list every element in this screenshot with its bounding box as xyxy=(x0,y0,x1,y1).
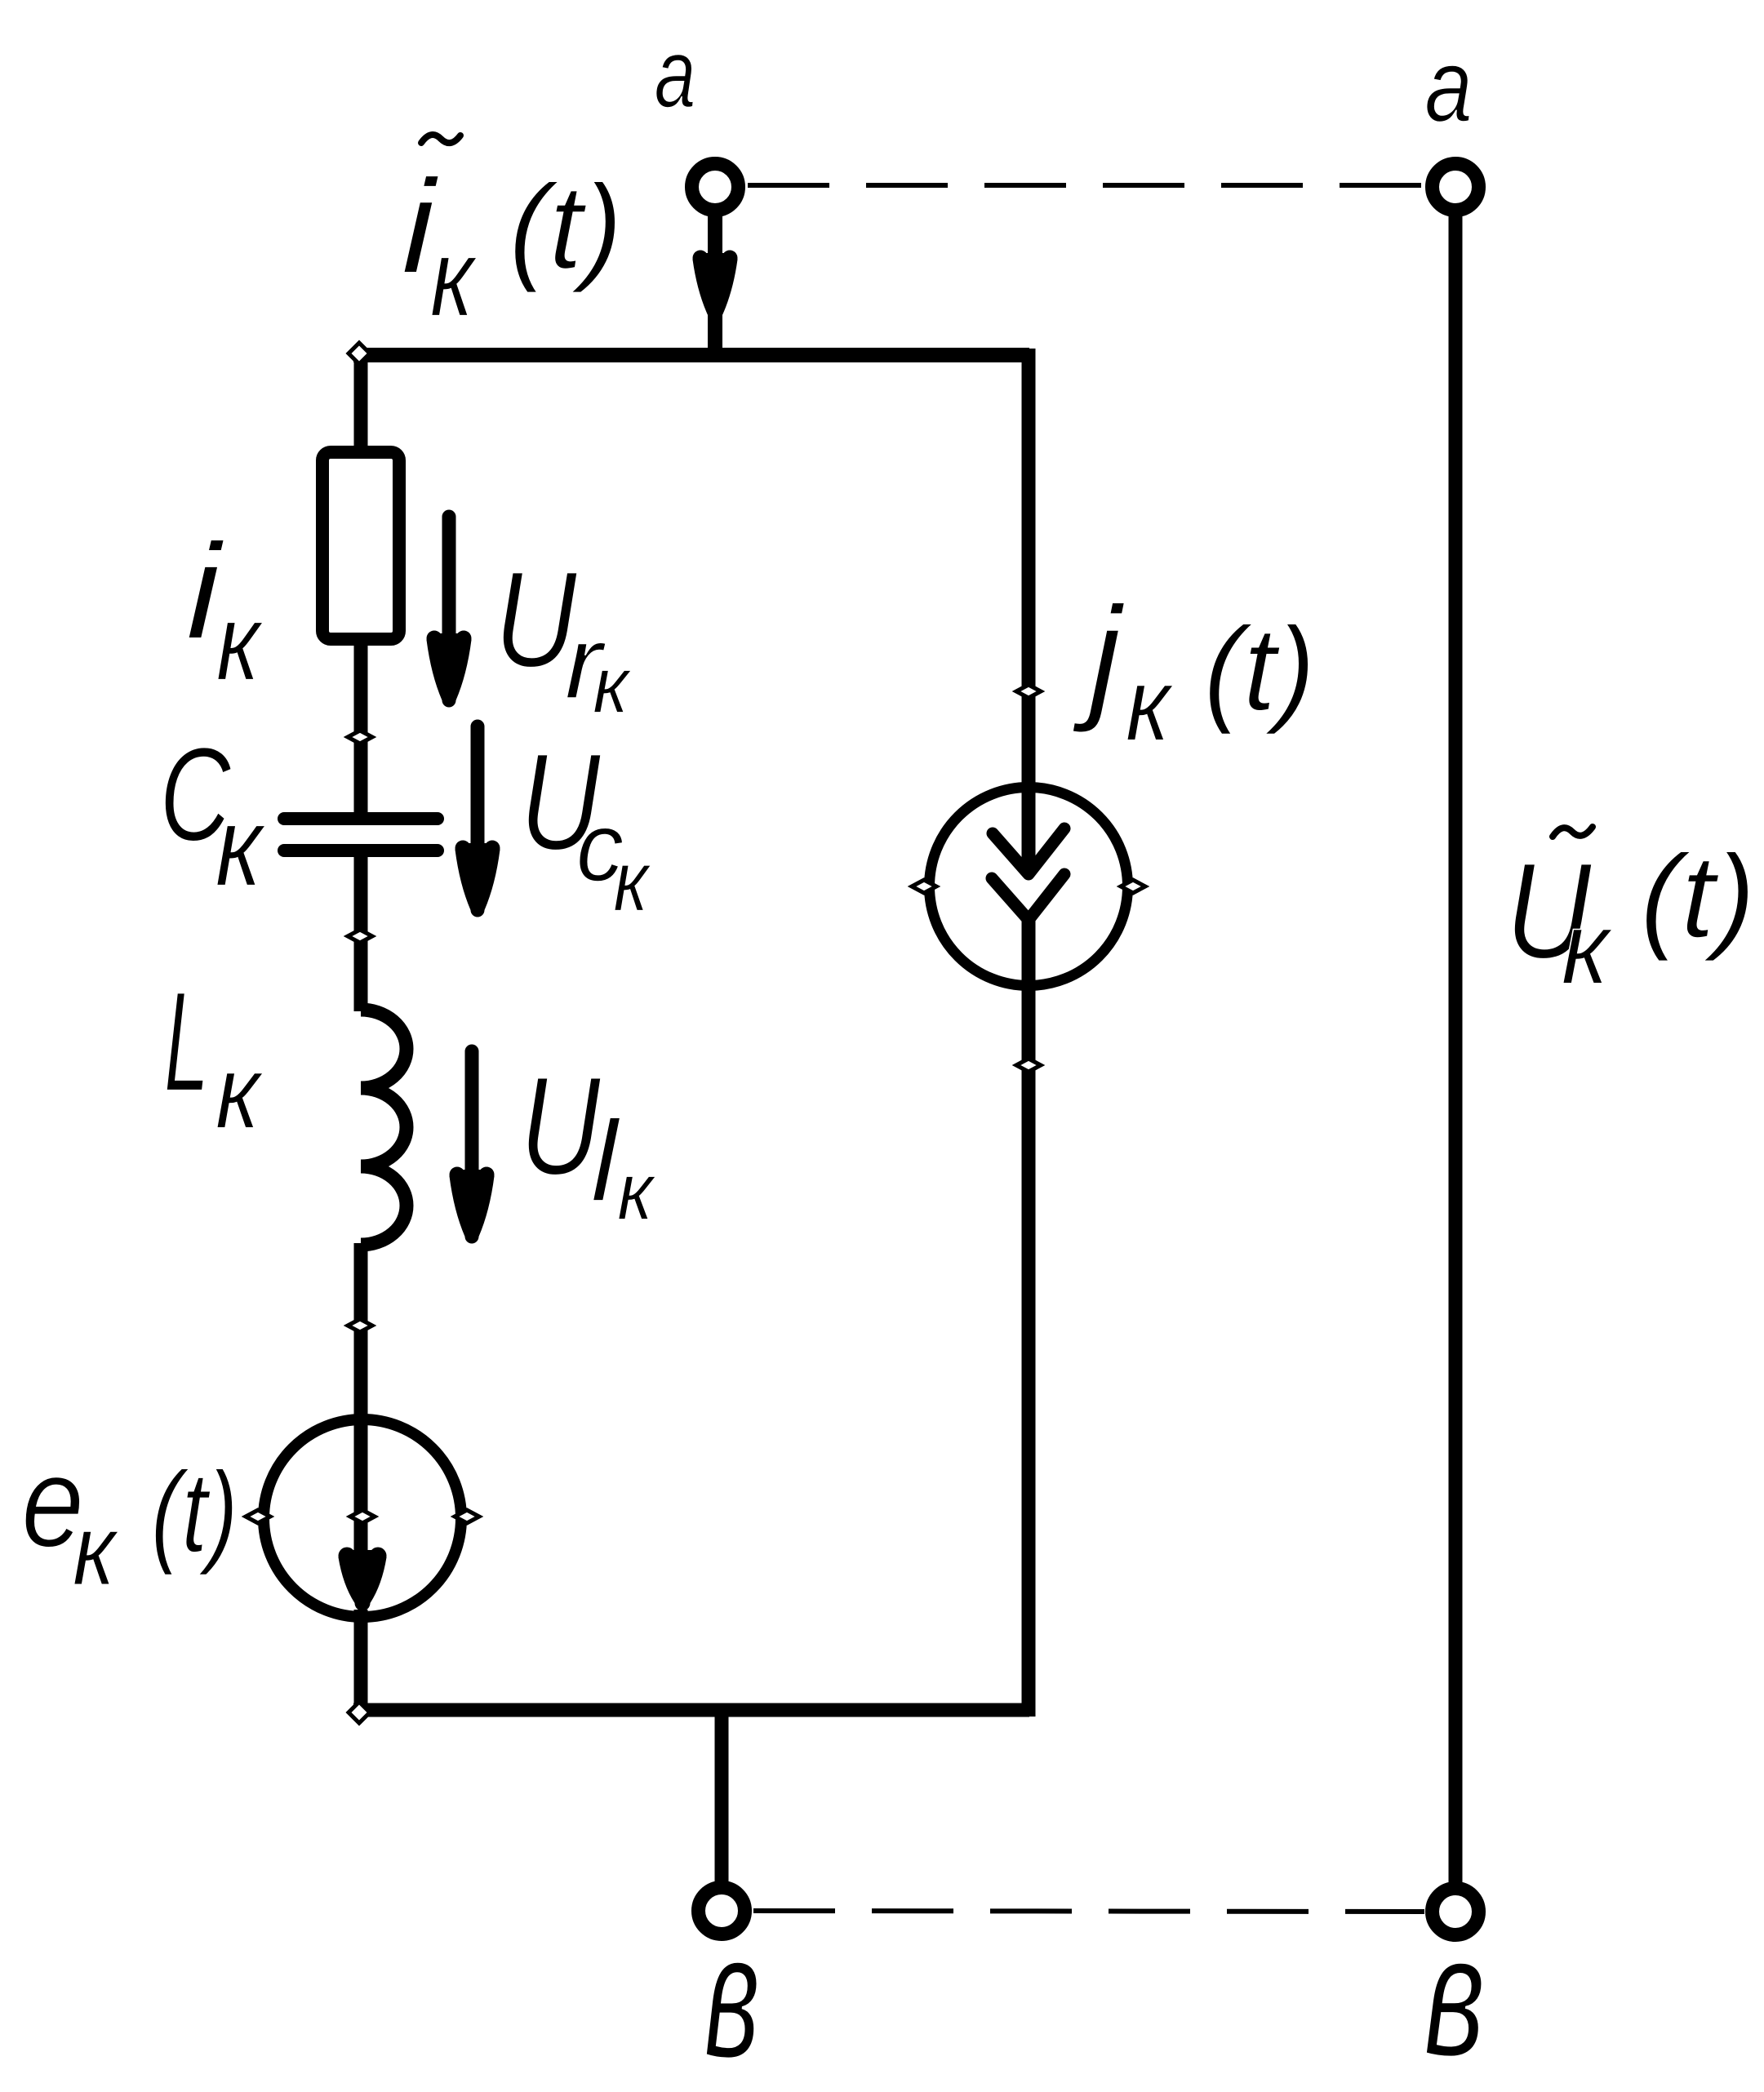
svg-text:к: к xyxy=(617,1147,656,1237)
svg-text:(t): (t) xyxy=(509,161,622,294)
arrow UlK stem xyxy=(465,1051,479,1188)
wire terminal a stem xyxy=(708,214,722,362)
wire terminal b stem xyxy=(715,1703,729,1884)
capacitor CK plate bottom xyxy=(284,844,438,857)
terminal a right xyxy=(1433,164,1479,211)
terminal b mid xyxy=(699,1888,745,1934)
inductor LK xyxy=(361,1010,407,1245)
node diamond current source right xyxy=(1121,880,1145,893)
emf source eK circle xyxy=(264,1419,461,1617)
svg-text:(t): (t) xyxy=(1640,831,1756,962)
node diamond below capacitor xyxy=(348,930,372,943)
resistor rK xyxy=(322,452,399,639)
arrow UrK head xyxy=(427,631,472,708)
node diamond current source left xyxy=(912,880,936,893)
wire right branch lower xyxy=(1022,917,1036,1717)
wire resistor to capacitor xyxy=(354,644,368,815)
svg-text:в: в xyxy=(1424,1898,1486,2092)
svg-text:к: к xyxy=(73,1495,119,1607)
wire left branch upper xyxy=(354,349,368,447)
current source jK chevron 1 xyxy=(993,828,1064,874)
svg-text:к: к xyxy=(216,783,267,910)
arrow UlK head xyxy=(450,1167,495,1244)
terminal a left xyxy=(692,164,739,211)
wire inductor to emf xyxy=(354,1243,368,1575)
svg-text:к: к xyxy=(613,833,651,929)
svg-text:к: к xyxy=(216,582,264,704)
node diamond emf mid xyxy=(350,1510,375,1523)
svg-text:в: в xyxy=(704,1897,760,2092)
emf source eK arrow head xyxy=(339,1548,387,1611)
wire bottom bus xyxy=(353,1703,1029,1717)
svg-text:L: L xyxy=(164,962,209,1121)
svg-text:a: a xyxy=(1424,27,1472,144)
node diamond right branch upper xyxy=(1016,685,1041,698)
label UK~ tilde xyxy=(1553,827,1593,837)
node diamond right branch lower xyxy=(1016,1059,1041,1072)
svg-text:к: к xyxy=(1562,891,1614,1005)
arrow UcK stem xyxy=(471,726,485,861)
svg-text:к: к xyxy=(593,642,632,730)
svg-text:к: к xyxy=(216,1033,264,1150)
node diamond emf left xyxy=(246,1510,270,1523)
svg-text:U: U xyxy=(520,1048,602,1204)
svg-text:(t): (t) xyxy=(1204,602,1316,735)
current source jK chevron 2 xyxy=(992,874,1064,920)
capacitor CK plate top xyxy=(284,812,438,825)
wire far right vertical xyxy=(1449,214,1463,1884)
svg-text:a: a xyxy=(655,19,696,128)
wire emf to bottom bus xyxy=(354,1610,368,1710)
dashed link bottom xyxy=(753,1911,1424,1912)
svg-text:(t): (t) xyxy=(151,1448,238,1575)
arrow UrK stem xyxy=(442,517,456,653)
wire top bus xyxy=(353,348,1029,362)
node diamond below inductor xyxy=(348,1319,372,1332)
svg-text:к: к xyxy=(1126,646,1174,762)
arrow UcK head xyxy=(455,841,500,917)
node diamond top-left corner xyxy=(349,343,370,364)
svg-text:к: к xyxy=(430,216,478,340)
svg-text:l: l xyxy=(591,1096,621,1225)
arrow iK~ head under terminal a xyxy=(693,251,738,323)
current source jK circle xyxy=(930,788,1128,986)
wire right branch upper xyxy=(1022,349,1036,868)
node diamond emf right xyxy=(455,1510,479,1523)
node diamond above capacitor xyxy=(348,731,372,744)
dashed link top xyxy=(748,183,1424,188)
wire capacitor to inductor xyxy=(354,854,368,1011)
label iK~ tilde xyxy=(421,135,460,143)
terminal b right xyxy=(1433,1889,1479,1935)
node diamond bottom-left corner xyxy=(349,1702,370,1723)
